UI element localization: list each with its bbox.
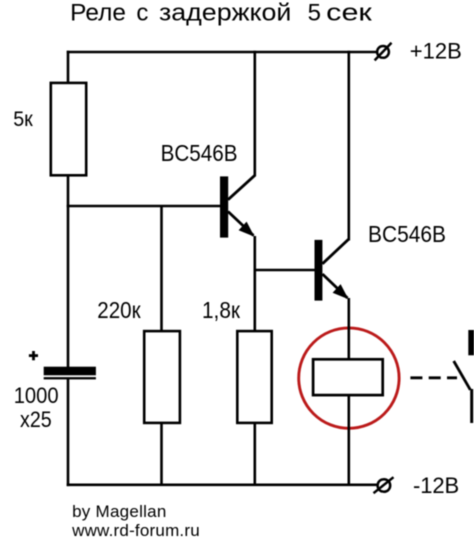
title: Реле с задержкой 5 сек: [70, 0, 372, 27]
svg-text:x25: x25: [20, 407, 52, 432]
svg-text:1000: 1000: [14, 383, 59, 408]
wire: node to R2 220k top: [160, 206, 163, 332]
svg-text:сек: сек: [326, 0, 372, 27]
svg-text:by Magellan: by Magellan: [72, 502, 166, 521]
svg-text:задержкой: задержкой: [159, 0, 291, 27]
wire: R1 bottom to capacitor top (left branch): [67, 175, 70, 368]
wire: top +12V rail: [67, 51, 377, 54]
transistor Q1 collector lead: [228, 175, 255, 200]
wire: R3 bottom to ground rail: [254, 423, 257, 485]
svg-text:-12В: -12В: [413, 473, 459, 498]
transistor Q2 emitter lead with arrow: [322, 274, 348, 299]
wire: Q1 emitter node down to R3 top: [254, 236, 257, 332]
relay highlight red circle: [299, 328, 399, 428]
wire: rail to R1 top: [67, 51, 70, 84]
svg-text:с: с: [136, 0, 148, 27]
wire: R2 bottom to ground rail: [160, 423, 163, 485]
capacitor C1 negative plate: [44, 377, 96, 379]
wire: Q2 collector to +12V rail: [347, 51, 350, 241]
terminal -12V: [374, 477, 394, 493]
wire: capacitor bottom to -12V rail: [67, 379, 70, 486]
relay contact fixed terminal (top): [468, 330, 474, 355]
transistor Q1 emitter lead with arrow: [228, 212, 255, 237]
svg-text:+12В: +12В: [410, 39, 462, 64]
dashed mechanical link to contact: [410, 376, 457, 379]
relay K1 coil body: [313, 359, 383, 395]
transistor Q2 base bar: [315, 240, 323, 301]
svg-text:BC546B: BC546B: [161, 140, 238, 166]
wire: relay coil to -12V rail: [347, 395, 350, 485]
resistor R1 5k body: [51, 83, 86, 175]
relay contact movable blade: [454, 361, 471, 390]
svg-text:220к: 220к: [97, 297, 141, 323]
capacitor C1 positive plate: [44, 367, 96, 376]
relay contact bottom terminal: [470, 389, 473, 423]
resistor R3 1.8k body: [237, 331, 271, 423]
transistor Q2 collector lead: [322, 239, 348, 263]
wire: bottom -12V rail: [67, 483, 377, 486]
svg-text:5к: 5к: [13, 108, 33, 131]
transistor Q1 base bar: [220, 176, 228, 237]
wire: Q2 emitter down to relay coil: [347, 298, 350, 360]
label + (capacitor polarity): [29, 351, 38, 360]
svg-text:5: 5: [308, 0, 321, 27]
resistor R2 220k body: [144, 331, 180, 423]
svg-text:www.rd-forum.ru: www.rd-forum.ru: [71, 521, 200, 537]
terminal +12V: [375, 43, 392, 61]
wire: Q1 collector to +12V rail: [254, 51, 257, 177]
svg-text:Реле: Реле: [70, 0, 126, 27]
wire: Q2 base wire from Q1 emitter node: [255, 269, 315, 272]
wire: Q1 base wire: [67, 205, 220, 208]
svg-text:BC546B: BC546B: [368, 221, 446, 247]
svg-text:1,8к: 1,8к: [202, 297, 241, 323]
